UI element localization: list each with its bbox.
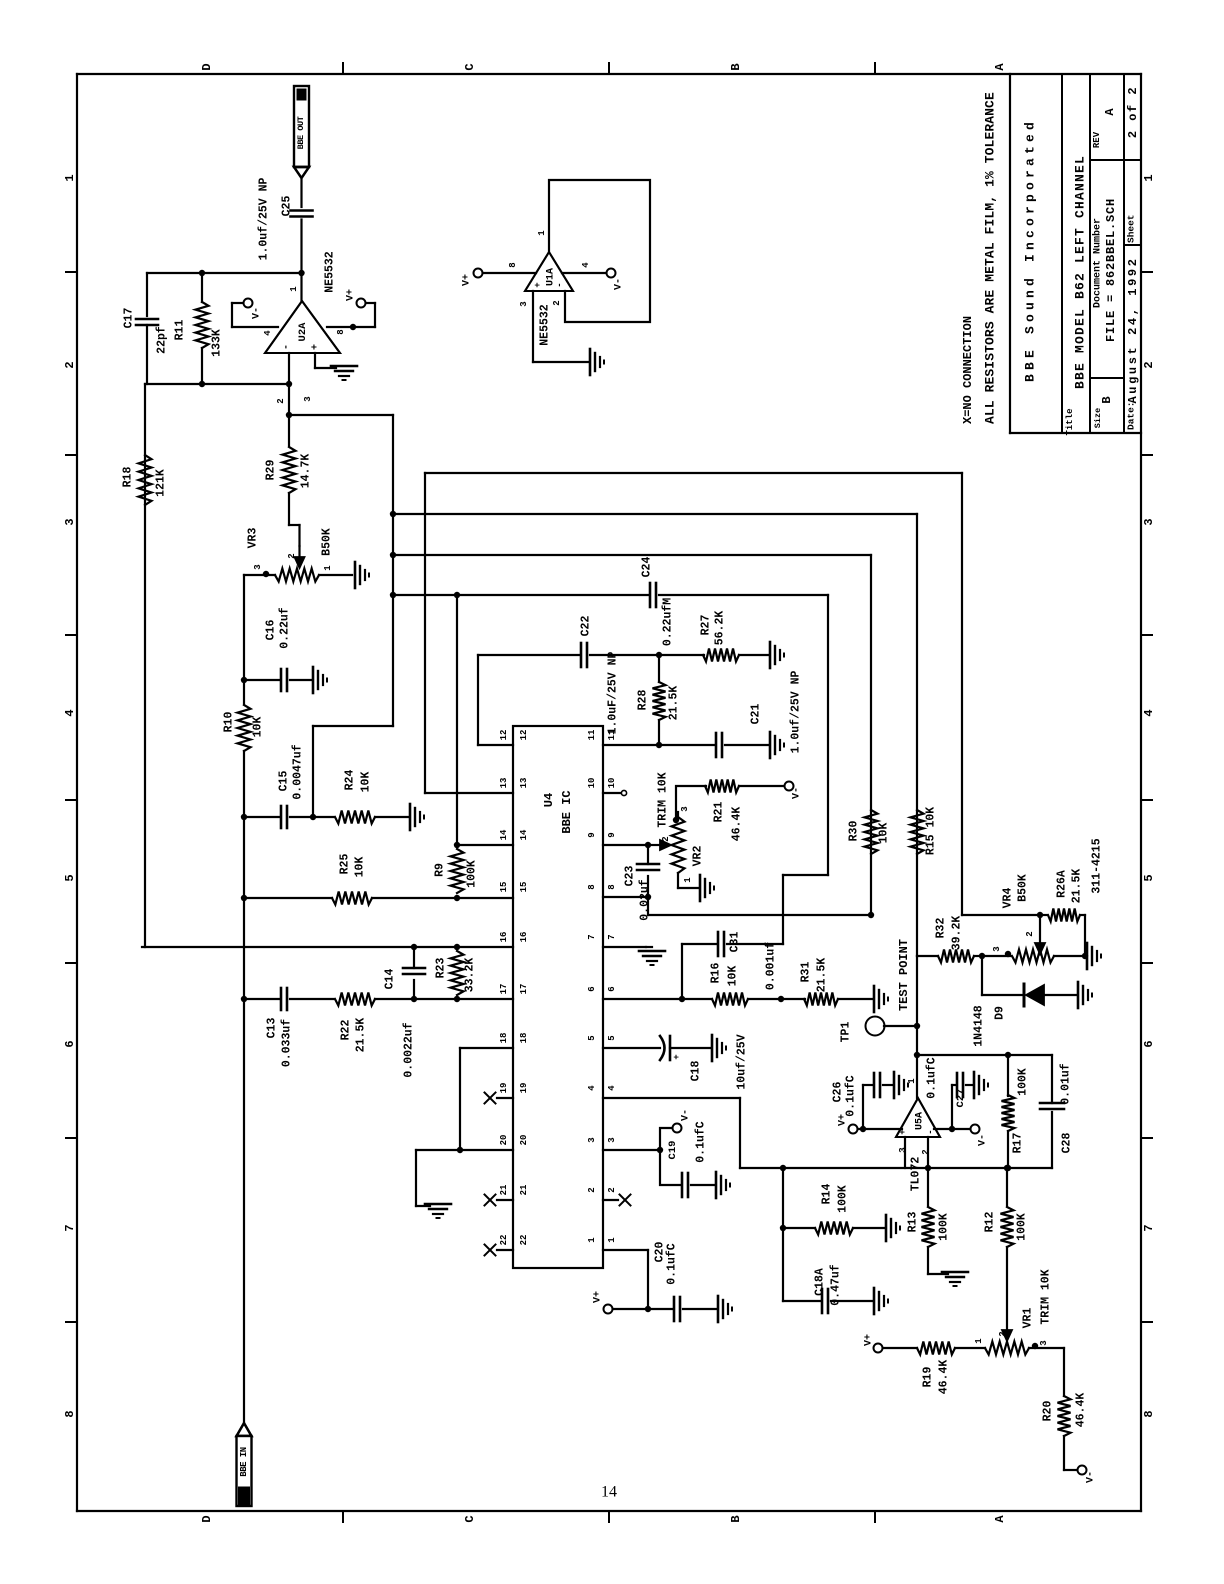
- svg-text:9: 9: [587, 832, 597, 837]
- svg-text:133K: 133K: [211, 329, 224, 357]
- svg-text:ALL RESISTORS ARE METAL FILM,: ALL RESISTORS ARE METAL FILM, 1% TOLERAN…: [983, 92, 998, 424]
- svg-text:5: 5: [607, 1035, 617, 1040]
- svg-text:0.0047uf: 0.0047uf: [292, 744, 305, 799]
- svg-text:4: 4: [63, 709, 77, 716]
- svg-text:B: B: [729, 1515, 743, 1522]
- svg-text:16: 16: [519, 932, 529, 943]
- svg-text:6: 6: [63, 1040, 77, 1047]
- svg-text:100K: 100K: [1017, 1068, 1030, 1096]
- svg-text:46.4K: 46.4K: [731, 807, 744, 842]
- svg-text:18: 18: [519, 1033, 529, 1044]
- svg-text:0.01uf: 0.01uf: [1060, 1063, 1073, 1105]
- svg-text:0.22uf: 0.22uf: [279, 607, 292, 649]
- svg-text:R9: R9: [434, 863, 447, 877]
- svg-text:4: 4: [607, 1085, 617, 1091]
- svg-text:U2A: U2A: [297, 322, 309, 342]
- svg-text:R31: R31: [800, 962, 813, 983]
- svg-text:22: 22: [519, 1235, 529, 1246]
- svg-text:C15: C15: [278, 771, 291, 792]
- svg-text:-: -: [555, 282, 565, 287]
- svg-text:46.4K: 46.4K: [938, 1360, 951, 1395]
- svg-text:V+: V+: [346, 289, 357, 301]
- svg-text:11: 11: [587, 729, 597, 740]
- svg-text:+: +: [898, 1129, 908, 1134]
- svg-text:14: 14: [499, 829, 509, 840]
- svg-text:3: 3: [680, 806, 690, 811]
- svg-text:1: 1: [587, 1237, 597, 1243]
- svg-text:21.5K: 21.5K: [1071, 869, 1084, 904]
- svg-text:21.5K: 21.5K: [355, 1018, 368, 1053]
- svg-text:10uf/25V: 10uf/25V: [736, 1034, 749, 1089]
- svg-text:+: +: [311, 344, 322, 350]
- svg-text:R27: R27: [700, 615, 713, 636]
- svg-text:21: 21: [499, 1184, 509, 1195]
- svg-text:0.1ufC: 0.1ufC: [926, 1057, 939, 1099]
- svg-text:1: 1: [537, 230, 547, 236]
- svg-text:5: 5: [63, 874, 77, 881]
- svg-text:8: 8: [508, 262, 518, 267]
- svg-text:TP1: TP1: [840, 1022, 853, 1043]
- svg-text:R14: R14: [821, 1184, 834, 1205]
- svg-text:REV: REV: [1092, 131, 1102, 148]
- svg-text:46.4K: 46.4K: [1075, 1393, 1088, 1428]
- svg-text:C26: C26: [832, 1082, 845, 1103]
- svg-text:R30: R30: [848, 821, 861, 842]
- svg-text:B: B: [1100, 396, 1114, 403]
- svg-text:R29: R29: [265, 460, 278, 481]
- svg-text:D: D: [200, 63, 214, 70]
- svg-text:7: 7: [63, 1224, 77, 1231]
- svg-text:1: 1: [323, 565, 333, 571]
- svg-text:Title: Title: [1065, 408, 1075, 435]
- svg-text:Document Number: Document Number: [1092, 218, 1104, 308]
- svg-text:C23: C23: [624, 866, 637, 887]
- svg-text:R25: R25: [339, 854, 352, 875]
- svg-text:22: 22: [499, 1235, 509, 1246]
- svg-text:2: 2: [287, 553, 297, 558]
- svg-text:C24: C24: [641, 557, 654, 578]
- svg-text:A: A: [993, 63, 1007, 71]
- svg-text:3: 3: [898, 1147, 908, 1152]
- svg-text:C18: C18: [690, 1061, 703, 1082]
- svg-text:R15 10K: R15 10K: [925, 807, 938, 855]
- svg-text:3: 3: [587, 1137, 597, 1142]
- svg-text:20: 20: [519, 1135, 529, 1146]
- svg-text:100K: 100K: [837, 1185, 850, 1213]
- svg-text:7: 7: [587, 934, 597, 939]
- svg-text:0.1ufC: 0.1ufC: [695, 1121, 708, 1163]
- svg-text:13: 13: [499, 778, 509, 789]
- svg-text:9: 9: [607, 832, 617, 837]
- svg-text:21.5K: 21.5K: [816, 958, 829, 993]
- svg-text:19: 19: [519, 1083, 529, 1094]
- svg-text:33.2K: 33.2K: [464, 958, 477, 993]
- svg-text:0.22ufM: 0.22ufM: [662, 598, 675, 646]
- svg-text:V+: V+: [593, 1291, 604, 1303]
- svg-text:R12: R12: [984, 1212, 997, 1233]
- svg-text:R28: R28: [637, 690, 650, 711]
- svg-text:12: 12: [519, 730, 529, 741]
- svg-text:U4: U4: [542, 793, 556, 807]
- svg-text:39.2K: 39.2K: [951, 916, 964, 951]
- svg-text:V+: V+: [864, 1334, 875, 1346]
- svg-text:2: 2: [63, 361, 77, 368]
- svg-text:1: 1: [1142, 174, 1156, 181]
- svg-text:C13: C13: [266, 1018, 279, 1039]
- svg-text:4: 4: [1142, 709, 1156, 716]
- svg-text:R20: R20: [1042, 1401, 1055, 1422]
- svg-text:D: D: [200, 1515, 214, 1522]
- svg-text:10K: 10K: [252, 717, 265, 738]
- svg-text:3: 3: [1142, 518, 1156, 525]
- svg-text:10K: 10K: [878, 823, 891, 844]
- svg-text:16: 16: [499, 932, 509, 943]
- svg-text:1.0uf/25V NP: 1.0uf/25V NP: [258, 178, 271, 261]
- svg-text:August 24, 1992: August 24, 1992: [1126, 256, 1140, 403]
- svg-text:R26A: R26A: [1056, 870, 1069, 898]
- svg-text:15: 15: [499, 882, 509, 893]
- svg-text:C18A: C18A: [814, 1268, 827, 1296]
- svg-text:21.5K: 21.5K: [668, 686, 681, 721]
- svg-text:5: 5: [587, 1035, 597, 1040]
- svg-text:100K: 100K: [938, 1213, 951, 1241]
- svg-text:0.1ufC: 0.1ufC: [666, 1243, 679, 1285]
- svg-text:C25: C25: [281, 196, 294, 217]
- svg-text:BBE IN: BBE IN: [239, 1447, 249, 1477]
- svg-text:14.7K: 14.7K: [300, 454, 313, 489]
- svg-text:X=NO CONNECTION: X=NO CONNECTION: [961, 316, 975, 424]
- svg-text:Date:: Date:: [1126, 401, 1137, 430]
- svg-text:10K: 10K: [354, 857, 367, 878]
- svg-text:121K: 121K: [155, 469, 168, 497]
- svg-text:0.033uf: 0.033uf: [281, 1019, 294, 1067]
- svg-text:0.47uf: 0.47uf: [830, 1264, 843, 1306]
- svg-text:20: 20: [499, 1135, 509, 1146]
- svg-text:22pf: 22pf: [156, 326, 169, 354]
- svg-text:Sheet: Sheet: [1126, 214, 1137, 243]
- svg-text:BBE OUT: BBE OUT: [296, 116, 306, 149]
- svg-text:1: 1: [607, 1237, 617, 1243]
- svg-text:2: 2: [276, 398, 286, 403]
- svg-text:+: +: [672, 1054, 682, 1059]
- svg-text:C28: C28: [1061, 1133, 1074, 1154]
- svg-text:C16: C16: [265, 620, 278, 641]
- svg-text:311-4215: 311-4215: [1091, 838, 1104, 893]
- svg-text:1.0uF/25V NP: 1.0uF/25V NP: [607, 652, 620, 735]
- svg-text:V-: V-: [681, 1109, 692, 1121]
- svg-text:R22: R22: [340, 1020, 353, 1041]
- svg-text:FILE = 862BBEL.SCH: FILE = 862BBEL.SCH: [1104, 198, 1118, 342]
- svg-text:1: 1: [63, 174, 77, 181]
- svg-text:V-: V-: [252, 307, 263, 319]
- svg-text:A: A: [993, 1515, 1007, 1523]
- svg-text:1: 1: [683, 877, 693, 883]
- svg-text:56.2K: 56.2K: [714, 611, 727, 646]
- svg-text:BBE Sound Incorporated: BBE Sound Incorporated: [1023, 118, 1038, 382]
- svg-text:-: -: [926, 1129, 936, 1134]
- svg-text:21: 21: [519, 1184, 529, 1195]
- svg-text:8: 8: [607, 884, 617, 889]
- svg-text:8: 8: [587, 884, 597, 889]
- svg-text:R24: R24: [344, 770, 357, 791]
- svg-text:R17: R17: [1012, 1133, 1025, 1154]
- svg-text:2: 2: [587, 1187, 597, 1192]
- svg-text:BBE MODEL B62 LEFT CHANNEL: BBE MODEL B62 LEFT CHANNEL: [1073, 155, 1088, 389]
- svg-text:NE5532: NE5532: [539, 304, 552, 346]
- svg-text:C: C: [463, 63, 477, 70]
- svg-text:7: 7: [1142, 1224, 1156, 1231]
- svg-text:BBE IC: BBE IC: [560, 790, 574, 833]
- svg-text:0.0022uf: 0.0022uf: [403, 1022, 416, 1077]
- svg-text:3: 3: [253, 564, 263, 569]
- svg-text:10K: 10K: [727, 966, 740, 987]
- svg-text:V-: V-: [978, 1134, 989, 1146]
- svg-text:15: 15: [519, 882, 529, 893]
- svg-text:V-: V-: [1086, 1471, 1097, 1483]
- svg-text:3: 3: [992, 946, 1002, 951]
- svg-text:7: 7: [607, 934, 617, 939]
- svg-text:5: 5: [1142, 874, 1156, 881]
- svg-text:3: 3: [519, 301, 529, 306]
- svg-text:B50K: B50K: [1017, 874, 1030, 902]
- svg-text:R13: R13: [907, 1212, 920, 1233]
- svg-text:3: 3: [607, 1137, 617, 1142]
- svg-text:13: 13: [519, 778, 529, 789]
- svg-text:0.1ufC: 0.1ufC: [845, 1075, 858, 1117]
- svg-text:2: 2: [661, 836, 671, 841]
- svg-text:VR4: VR4: [1002, 888, 1015, 909]
- svg-text:B: B: [729, 63, 743, 70]
- svg-text:-: -: [282, 344, 293, 350]
- svg-text:R21: R21: [713, 802, 726, 823]
- svg-text:A: A: [1103, 108, 1117, 116]
- svg-text:VR3: VR3: [247, 528, 260, 549]
- svg-text:4: 4: [587, 1085, 597, 1091]
- svg-text:R16: R16: [710, 963, 723, 984]
- svg-text:4: 4: [263, 330, 273, 336]
- svg-text:R18: R18: [122, 467, 135, 488]
- svg-text:1N4148: 1N4148: [973, 1005, 986, 1047]
- svg-text:C17: C17: [123, 308, 136, 329]
- svg-text:1.0uf/25V NP: 1.0uf/25V NP: [790, 671, 803, 754]
- svg-text:TRIM 10K: TRIM 10K: [657, 772, 670, 827]
- svg-text:TL072: TL072: [910, 1157, 923, 1192]
- svg-text:C14: C14: [384, 969, 397, 990]
- svg-text:8: 8: [1142, 1410, 1156, 1417]
- svg-text:8: 8: [63, 1410, 77, 1417]
- svg-text:TRIM 10K: TRIM 10K: [1040, 1269, 1053, 1324]
- svg-text:6: 6: [1142, 1040, 1156, 1047]
- svg-text:C19: C19: [667, 1141, 679, 1160]
- svg-text:C27: C27: [955, 1089, 967, 1108]
- svg-text:V-: V-: [614, 278, 625, 290]
- svg-text:D9: D9: [994, 1006, 1007, 1020]
- svg-text:R11: R11: [174, 320, 187, 341]
- svg-text:18: 18: [499, 1033, 509, 1044]
- svg-text:C: C: [463, 1515, 477, 1522]
- svg-text:17: 17: [519, 984, 529, 995]
- svg-text:100K: 100K: [466, 860, 479, 888]
- svg-text:12: 12: [499, 730, 509, 741]
- svg-text:2: 2: [921, 1149, 931, 1154]
- svg-text:Size: Size: [1093, 408, 1103, 428]
- svg-text:10: 10: [587, 778, 597, 789]
- svg-text:R23: R23: [435, 958, 448, 979]
- svg-text:2: 2: [1142, 361, 1156, 368]
- svg-text:1: 1: [974, 1338, 984, 1344]
- svg-text:R32: R32: [935, 918, 948, 939]
- svg-text:VR1: VR1: [1022, 1308, 1035, 1329]
- svg-text:U5A: U5A: [915, 1112, 926, 1130]
- svg-text:19: 19: [499, 1083, 509, 1094]
- svg-text:17: 17: [499, 984, 509, 995]
- svg-text:3: 3: [63, 518, 77, 525]
- svg-text:4: 4: [581, 262, 591, 268]
- svg-text:3: 3: [1039, 1340, 1049, 1345]
- svg-text:C31: C31: [729, 932, 742, 953]
- svg-text:10K: 10K: [360, 772, 373, 793]
- svg-text:10: 10: [607, 778, 617, 789]
- svg-text:6: 6: [607, 986, 617, 991]
- svg-text:V+: V+: [462, 274, 473, 286]
- svg-text:2: 2: [998, 1331, 1008, 1336]
- svg-text:0.001uf: 0.001uf: [765, 942, 778, 990]
- svg-text:2: 2: [1025, 931, 1035, 936]
- svg-text:8: 8: [336, 329, 346, 334]
- svg-text:2 of 2: 2 of 2: [1126, 86, 1140, 138]
- svg-text:14: 14: [601, 1484, 617, 1501]
- svg-text:B50K: B50K: [321, 528, 334, 556]
- svg-text:2: 2: [607, 1187, 617, 1192]
- svg-text:C22: C22: [580, 616, 593, 637]
- svg-text:2: 2: [552, 300, 562, 305]
- svg-text:R19: R19: [922, 1367, 935, 1388]
- svg-text:100K: 100K: [1016, 1213, 1029, 1241]
- svg-text:C21: C21: [750, 704, 763, 725]
- svg-text:6: 6: [587, 986, 597, 991]
- svg-text:V-: V-: [792, 787, 803, 799]
- svg-text:VR2: VR2: [692, 846, 705, 867]
- svg-text:R10: R10: [223, 712, 236, 733]
- svg-text:+: +: [533, 282, 543, 287]
- svg-text:1: 1: [289, 286, 299, 292]
- svg-text:14: 14: [519, 829, 529, 840]
- svg-text:TEST POINT: TEST POINT: [897, 939, 911, 1011]
- svg-text:3: 3: [303, 396, 313, 401]
- svg-text:NE5532: NE5532: [324, 251, 337, 293]
